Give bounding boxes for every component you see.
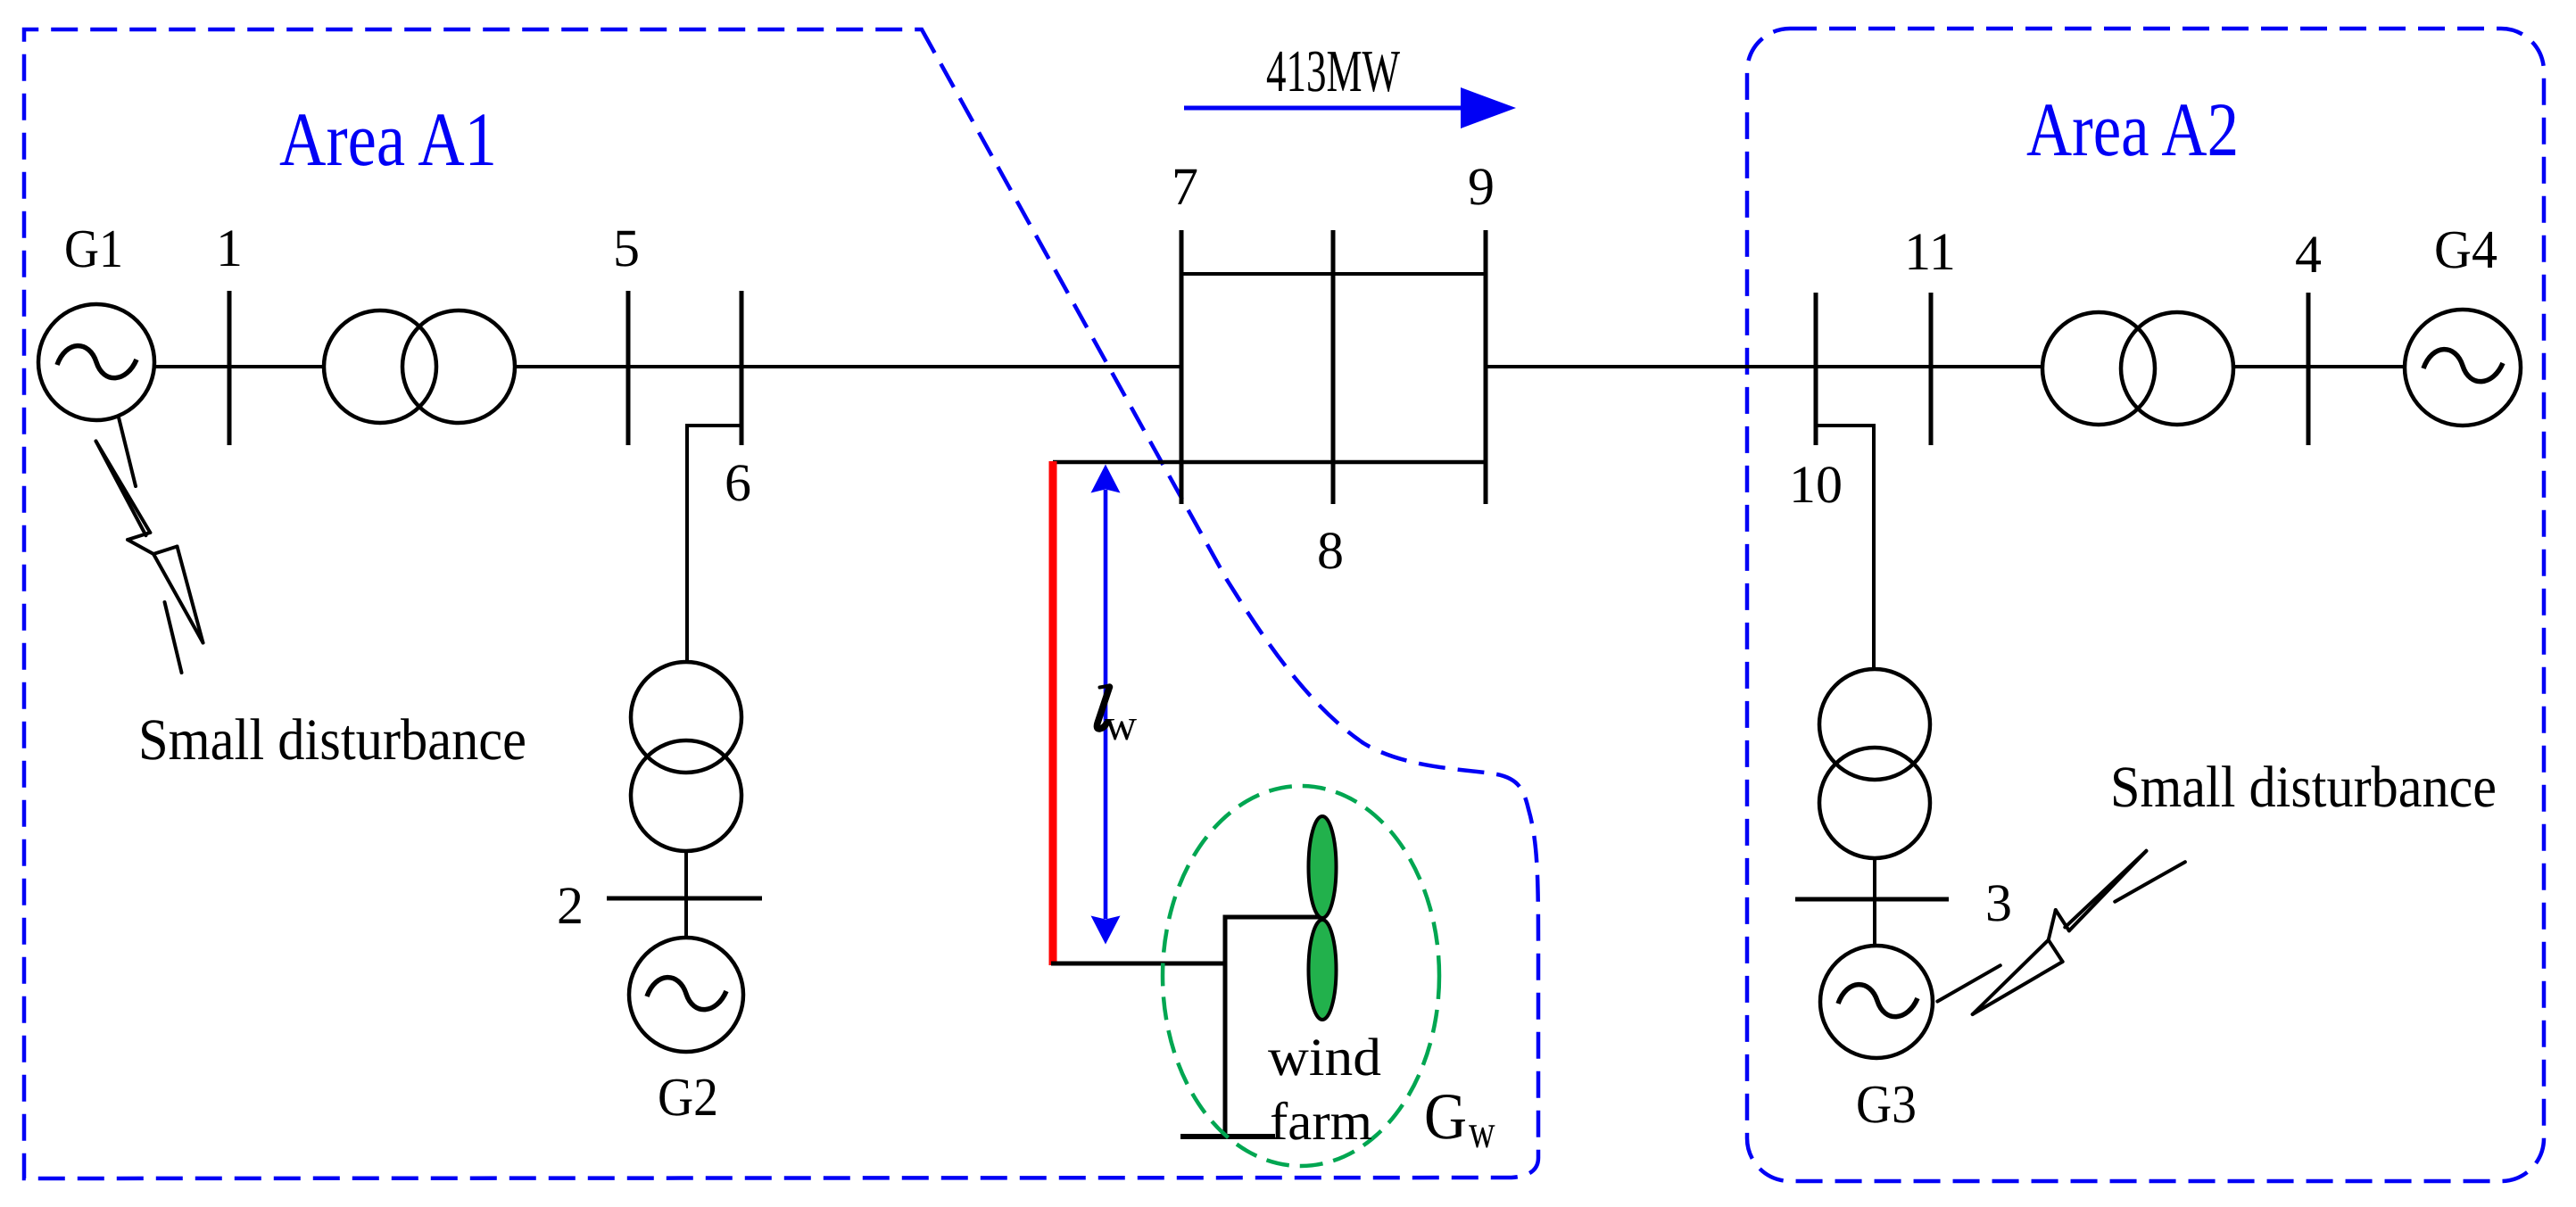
svg-text:5: 5 xyxy=(613,219,640,277)
faulted line lw (red) xyxy=(1049,461,1057,965)
transformer T2 xyxy=(631,662,741,851)
generator G4 xyxy=(2405,310,2521,426)
svg-text:6: 6 xyxy=(725,453,751,512)
wire G1 to transformer T1 xyxy=(153,365,325,368)
svg-text:G1: G1 xyxy=(64,219,123,279)
wire parallel line top 7-9 xyxy=(1181,272,1486,276)
lightning bolt right xyxy=(1937,851,2185,1014)
transformer T3 xyxy=(2042,312,2233,425)
svg-text:7: 7 xyxy=(1172,157,1198,216)
bus 8 xyxy=(1331,230,1336,504)
wire transformer T1 to bus 7 xyxy=(514,365,1181,368)
bus 4 xyxy=(2307,293,2311,445)
wire main line bus 9 to bus 11 area xyxy=(1486,365,2042,368)
wire wind farm tower xyxy=(1225,917,1321,1135)
svg-text:1: 1 xyxy=(216,219,243,277)
generator G2 xyxy=(629,938,743,1052)
bus 7 xyxy=(1180,230,1184,504)
lightning bolt left xyxy=(96,417,203,673)
svg-text:Small disturbance: Small disturbance xyxy=(2110,755,2497,820)
svg-text:farm: farm xyxy=(1270,1092,1372,1151)
area A2 dashed boundary xyxy=(1747,29,2544,1181)
svg-text:11: 11 xyxy=(1904,222,1956,281)
wire red line bottom to wind farm xyxy=(1051,962,1225,966)
area A1 dashed boundary xyxy=(24,29,1538,1178)
wire bus 6 branch xyxy=(687,426,741,664)
label lw xyxy=(1097,687,1109,729)
svg-text:3: 3 xyxy=(1985,873,2012,932)
wind turbine blade top xyxy=(1309,816,1337,918)
svg-text:G4: G4 xyxy=(2434,220,2497,280)
wire T4 to bus 3 to G3 xyxy=(1873,858,1876,946)
wire parallel line bottom red tap to 9 xyxy=(1053,460,1486,465)
svg-text:Area A2: Area A2 xyxy=(2026,87,2239,172)
bus 3 xyxy=(1795,897,1949,902)
svg-text:wind: wind xyxy=(1268,1028,1381,1087)
wire T2 to bus 2 xyxy=(684,851,688,938)
svg-text:G2: G2 xyxy=(658,1068,718,1128)
wire bus 10 branch xyxy=(1816,426,1874,669)
bus 11 xyxy=(1929,293,1934,445)
bus 1 xyxy=(228,291,232,445)
svg-text:8: 8 xyxy=(1317,521,1344,580)
generator G1 xyxy=(38,304,154,420)
bus 6 xyxy=(740,291,744,445)
svg-text:4: 4 xyxy=(2295,225,2322,284)
wind farm dashed ellipse xyxy=(1163,786,1439,1166)
svg-text:w: w xyxy=(1469,1104,1495,1158)
svg-text:2: 2 xyxy=(557,876,584,935)
ground wind farm xyxy=(1180,1134,1275,1139)
svg-text:9: 9 xyxy=(1468,157,1495,216)
svg-text:10: 10 xyxy=(1789,455,1843,514)
wire transformer T3 to bus 4 to G4 xyxy=(2233,365,2406,368)
generator G3 xyxy=(1820,946,1933,1058)
wind turbine blade bottom xyxy=(1309,920,1337,1020)
svg-text:413MW: 413MW xyxy=(1266,38,1401,104)
svg-text:G3: G3 xyxy=(1856,1075,1917,1135)
transformer T4 xyxy=(1819,669,1930,858)
svg-text:w: w xyxy=(1105,699,1137,749)
svg-text:Area A1: Area A1 xyxy=(279,96,497,182)
bus 2 xyxy=(607,897,762,901)
arrow 413MW xyxy=(1184,87,1516,128)
svg-text:Small disturbance: Small disturbance xyxy=(138,707,526,773)
bus 5 xyxy=(626,291,631,445)
svg-text:G: G xyxy=(1424,1080,1467,1153)
transformer T1 xyxy=(324,310,515,423)
bus 9 xyxy=(1484,230,1488,504)
bus 10 xyxy=(1814,293,1818,445)
dimension arrow lw (blue) xyxy=(1091,465,1121,945)
